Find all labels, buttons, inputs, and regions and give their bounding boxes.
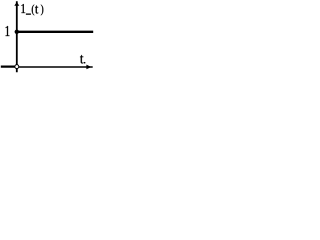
wire: zero segment of step for t<0	[1, 65, 17, 67]
unit step function diagram	[0, 0, 100, 80]
vertical axis (ordinate)	[16, 1, 18, 72]
label t: detached hook dot	[84, 62, 86, 64]
label t (axis)	[80, 55, 83, 63]
wire: step line at level 1 for t>0	[17, 31, 93, 33]
vertical axis arrowhead	[14, 2, 19, 6]
horizontal axis (t-axis)	[17, 66, 93, 68]
label 1 (tick at level 1)	[6, 26, 10, 36]
node: open circle at origin (0,0)	[15, 65, 19, 69]
node: filled dot at (0,1)	[15, 30, 19, 34]
label 1_(t)	[21, 4, 43, 15]
horizontal axis arrowhead	[86, 65, 91, 70]
